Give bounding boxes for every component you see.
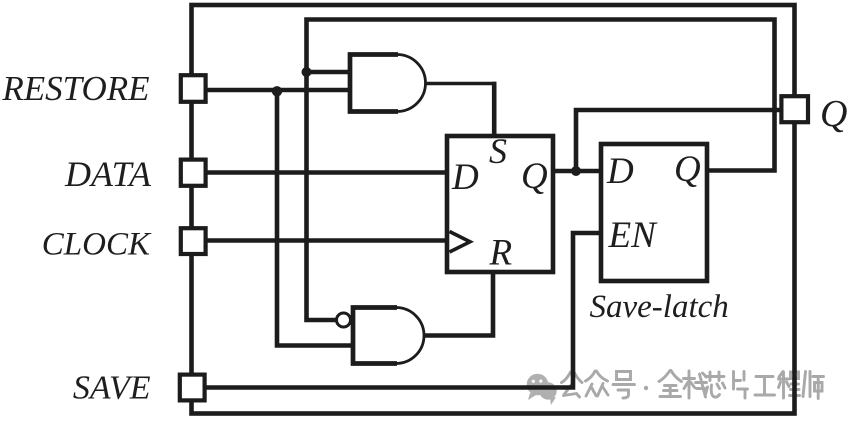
watermark text 公众号·全栈芯片工程师 <box>562 371 824 399</box>
AND gate U1 <box>350 55 426 112</box>
svg-text:R: R <box>489 233 513 274</box>
svg-text:Q: Q <box>674 149 701 190</box>
svg-text:EN: EN <box>608 215 659 256</box>
flip-flop clock triangle <box>450 232 471 253</box>
svg-text:Q: Q <box>521 156 548 197</box>
wire U2 output to flip-flop R <box>424 271 493 336</box>
wire U1 output to flip-flop S <box>423 82 496 137</box>
pad DATA <box>181 160 206 186</box>
wire DATA input to flip-flop D <box>204 170 448 175</box>
svg-text:DATA: DATA <box>64 154 152 194</box>
watermark logo <box>527 374 557 405</box>
outer box border <box>192 5 795 414</box>
junction dot feedback to U1 upper input <box>302 67 312 77</box>
svg-text:CLOCK: CLOCK <box>42 227 152 263</box>
wire from RESTORE junction down to U2 lower input <box>277 90 354 346</box>
svg-text:SAVE: SAVE <box>73 370 151 407</box>
svg-text:D: D <box>451 157 479 198</box>
wire feedback from latch Q up over the top and down to gates <box>307 20 775 321</box>
wire FF Q node to output pad Q <box>576 110 783 171</box>
pad RESTORE <box>181 75 206 102</box>
svg-text:Q: Q <box>820 93 847 135</box>
svg-text:Save-latch: Save-latch <box>590 289 729 325</box>
junction dot FF Q node <box>571 166 581 176</box>
pad SAVE <box>180 375 205 401</box>
pad CLOCK <box>181 228 206 254</box>
wire flip-flop Q to latch D <box>552 169 601 174</box>
wire SAVE input to latch EN <box>204 233 601 388</box>
wire CLOCK input to flip-flop clock <box>204 238 448 243</box>
junction dot on RESTORE line (node to U2) <box>272 86 282 96</box>
wire RESTORE input to AND gate U1 lower input <box>204 88 351 93</box>
wire feedback tap to AND gate U1 upper input <box>307 70 352 75</box>
latch U4 box <box>601 144 707 281</box>
svg-text:S: S <box>489 131 507 171</box>
svg-text:D: D <box>606 151 634 192</box>
flip-flop U3 box <box>447 136 553 272</box>
pad Q output <box>781 96 808 122</box>
AND gate U2 with inverted input <box>353 308 424 364</box>
inverter bubble on U2 upper input <box>337 313 351 327</box>
svg-text:RESTORE: RESTORE <box>1 69 149 108</box>
